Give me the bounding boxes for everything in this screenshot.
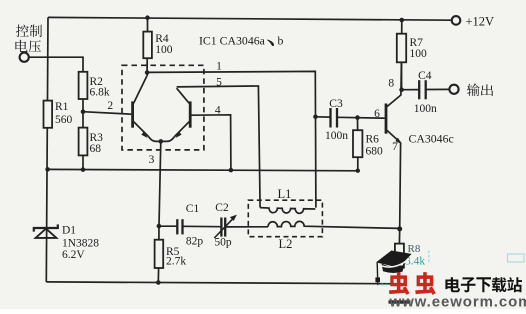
transistor Q2 CA3046b (161, 88, 190, 141)
svg-text:R1: R1 (55, 101, 69, 113)
svg-text:b: b (278, 34, 284, 48)
label R3 (90, 132, 104, 155)
svg-text:L1: L1 (278, 187, 292, 201)
junction rail-left rail (45, 167, 50, 172)
transistor Q3 CA3046c (386, 62, 402, 229)
terminal +12V (452, 16, 461, 25)
resistor R4 (143, 18, 152, 77)
svg-text:82p: 82p (186, 236, 204, 248)
svg-text:R7: R7 (410, 37, 424, 49)
capacitor C1 (159, 219, 221, 234)
svg-text:6.2V: 6.2V (62, 249, 85, 261)
svg-text:C4: C4 (418, 70, 432, 82)
svg-text:560: 560 (55, 114, 73, 126)
watermark 电子下载站 (445, 277, 522, 292)
resistor R8 (395, 229, 404, 284)
svg-text:1N3828: 1N3828 (62, 237, 99, 249)
svg-text:IC1 CA3046a: IC1 CA3046a (199, 34, 266, 48)
junction C3/R6/base (355, 115, 360, 120)
junction pin4 rail (229, 168, 234, 173)
label 输出 (467, 84, 493, 96)
svg-text:2: 2 (107, 100, 113, 112)
wire mid reference rail (47, 169, 358, 170)
watermark 虫 2 (415, 272, 435, 295)
label R4 (155, 33, 173, 56)
junction R5 bottom (156, 280, 161, 285)
watermark teal box remnant (508, 254, 525, 262)
svg-text:100: 100 (410, 48, 428, 60)
svg-text:100: 100 (155, 44, 173, 56)
label IC1 CA3046a、b (199, 34, 284, 48)
junction R7 top (400, 18, 405, 23)
label R6 (366, 134, 384, 158)
terminal output (449, 85, 458, 94)
wire pin4 (192, 115, 231, 170)
svg-text:L2: L2 (279, 237, 293, 251)
svg-text:C3: C3 (329, 98, 343, 110)
svg-text:100n: 100n (325, 130, 348, 142)
svg-text:D1: D1 (62, 224, 76, 236)
wire control terminal to R2 (29, 57, 83, 72)
terminal control voltage (20, 53, 29, 62)
junction emitter/L2/R8 (397, 226, 402, 231)
wire R2 to node 2 (82, 99, 84, 128)
capacitor C3 (316, 108, 385, 128)
resistor R7 (397, 20, 406, 90)
label R5 (166, 246, 186, 268)
inductor L1 (260, 208, 315, 214)
svg-text:2.7k: 2.7k (166, 256, 186, 268)
svg-text:6: 6 (374, 108, 380, 120)
svg-text:4: 4 (215, 104, 221, 116)
resistor R1 (44, 101, 53, 128)
capacitor C2 variable (214, 215, 268, 238)
wire bottom rail (46, 282, 400, 284)
wire +12V top rail (48, 17, 452, 20)
junction node 2 (81, 109, 86, 114)
capacitor C4 (402, 80, 450, 99)
svg-text:C1: C1 (186, 203, 200, 215)
label R1 (55, 101, 73, 126)
wire pin3 emitters down (159, 141, 161, 226)
watermark teal dashes near R8 (428, 251, 430, 264)
svg-text:680: 680 (366, 146, 384, 158)
svg-text:www.eeworm.com: www.eeworm.com (389, 294, 526, 309)
transistor Q1 CA3046a (133, 77, 161, 142)
resistor R6 (353, 118, 362, 171)
IC1 dashed outline (122, 65, 204, 150)
junction R3 bottom (81, 167, 86, 172)
resistor R5 (155, 226, 164, 282)
svg-text:R8: R8 (408, 243, 421, 255)
resistor R2 (79, 72, 88, 99)
svg-text:5: 5 (216, 77, 222, 89)
junction pin3/C1/R5 (157, 224, 162, 229)
svg-text:100n: 100n (414, 103, 437, 115)
junction line1/C3/L1 (313, 115, 318, 120)
svg-text:6.8k: 6.8k (90, 87, 110, 99)
wire pin5 (177, 86, 261, 208)
label 电压 (15, 40, 41, 53)
svg-text:+12V: +12V (466, 15, 495, 29)
watermark 虫 1 (389, 272, 409, 295)
junction R6 bottom (356, 169, 360, 173)
svg-text:C2: C2 (215, 202, 229, 214)
wire pin1 (147, 71, 316, 207)
junction R4 top (145, 15, 150, 20)
label 控制 (16, 24, 42, 37)
label R7 (410, 37, 428, 60)
wire node2 to Q1 base pin2 (83, 112, 131, 115)
svg-text:1: 1 (216, 61, 222, 73)
junction Q1 collector node (145, 70, 150, 75)
svg-text:R6: R6 (366, 134, 380, 146)
watermark dark bar (389, 300, 411, 303)
inductor L2 (268, 221, 400, 228)
L1 L2 dashed outline (248, 200, 322, 237)
svg-text:CA3046c: CA3046c (409, 131, 454, 145)
wire left rail (46, 17, 48, 282)
zener diode D1 (34, 224, 58, 238)
svg-text:3: 3 (149, 154, 155, 166)
svg-text:68: 68 (90, 143, 102, 155)
label R2 (90, 76, 110, 99)
resistor R3 (79, 128, 88, 156)
svg-text:8: 8 (388, 77, 394, 89)
watermark teal dotted rail (377, 283, 400, 285)
junction emitters pin3 (159, 139, 164, 144)
wire R3 to mid rail (82, 155, 84, 170)
svg-text:50p: 50p (214, 236, 232, 248)
svg-text:7: 7 (392, 141, 398, 153)
junction node 8 (399, 87, 404, 92)
watermark graduation cap (375, 251, 411, 285)
